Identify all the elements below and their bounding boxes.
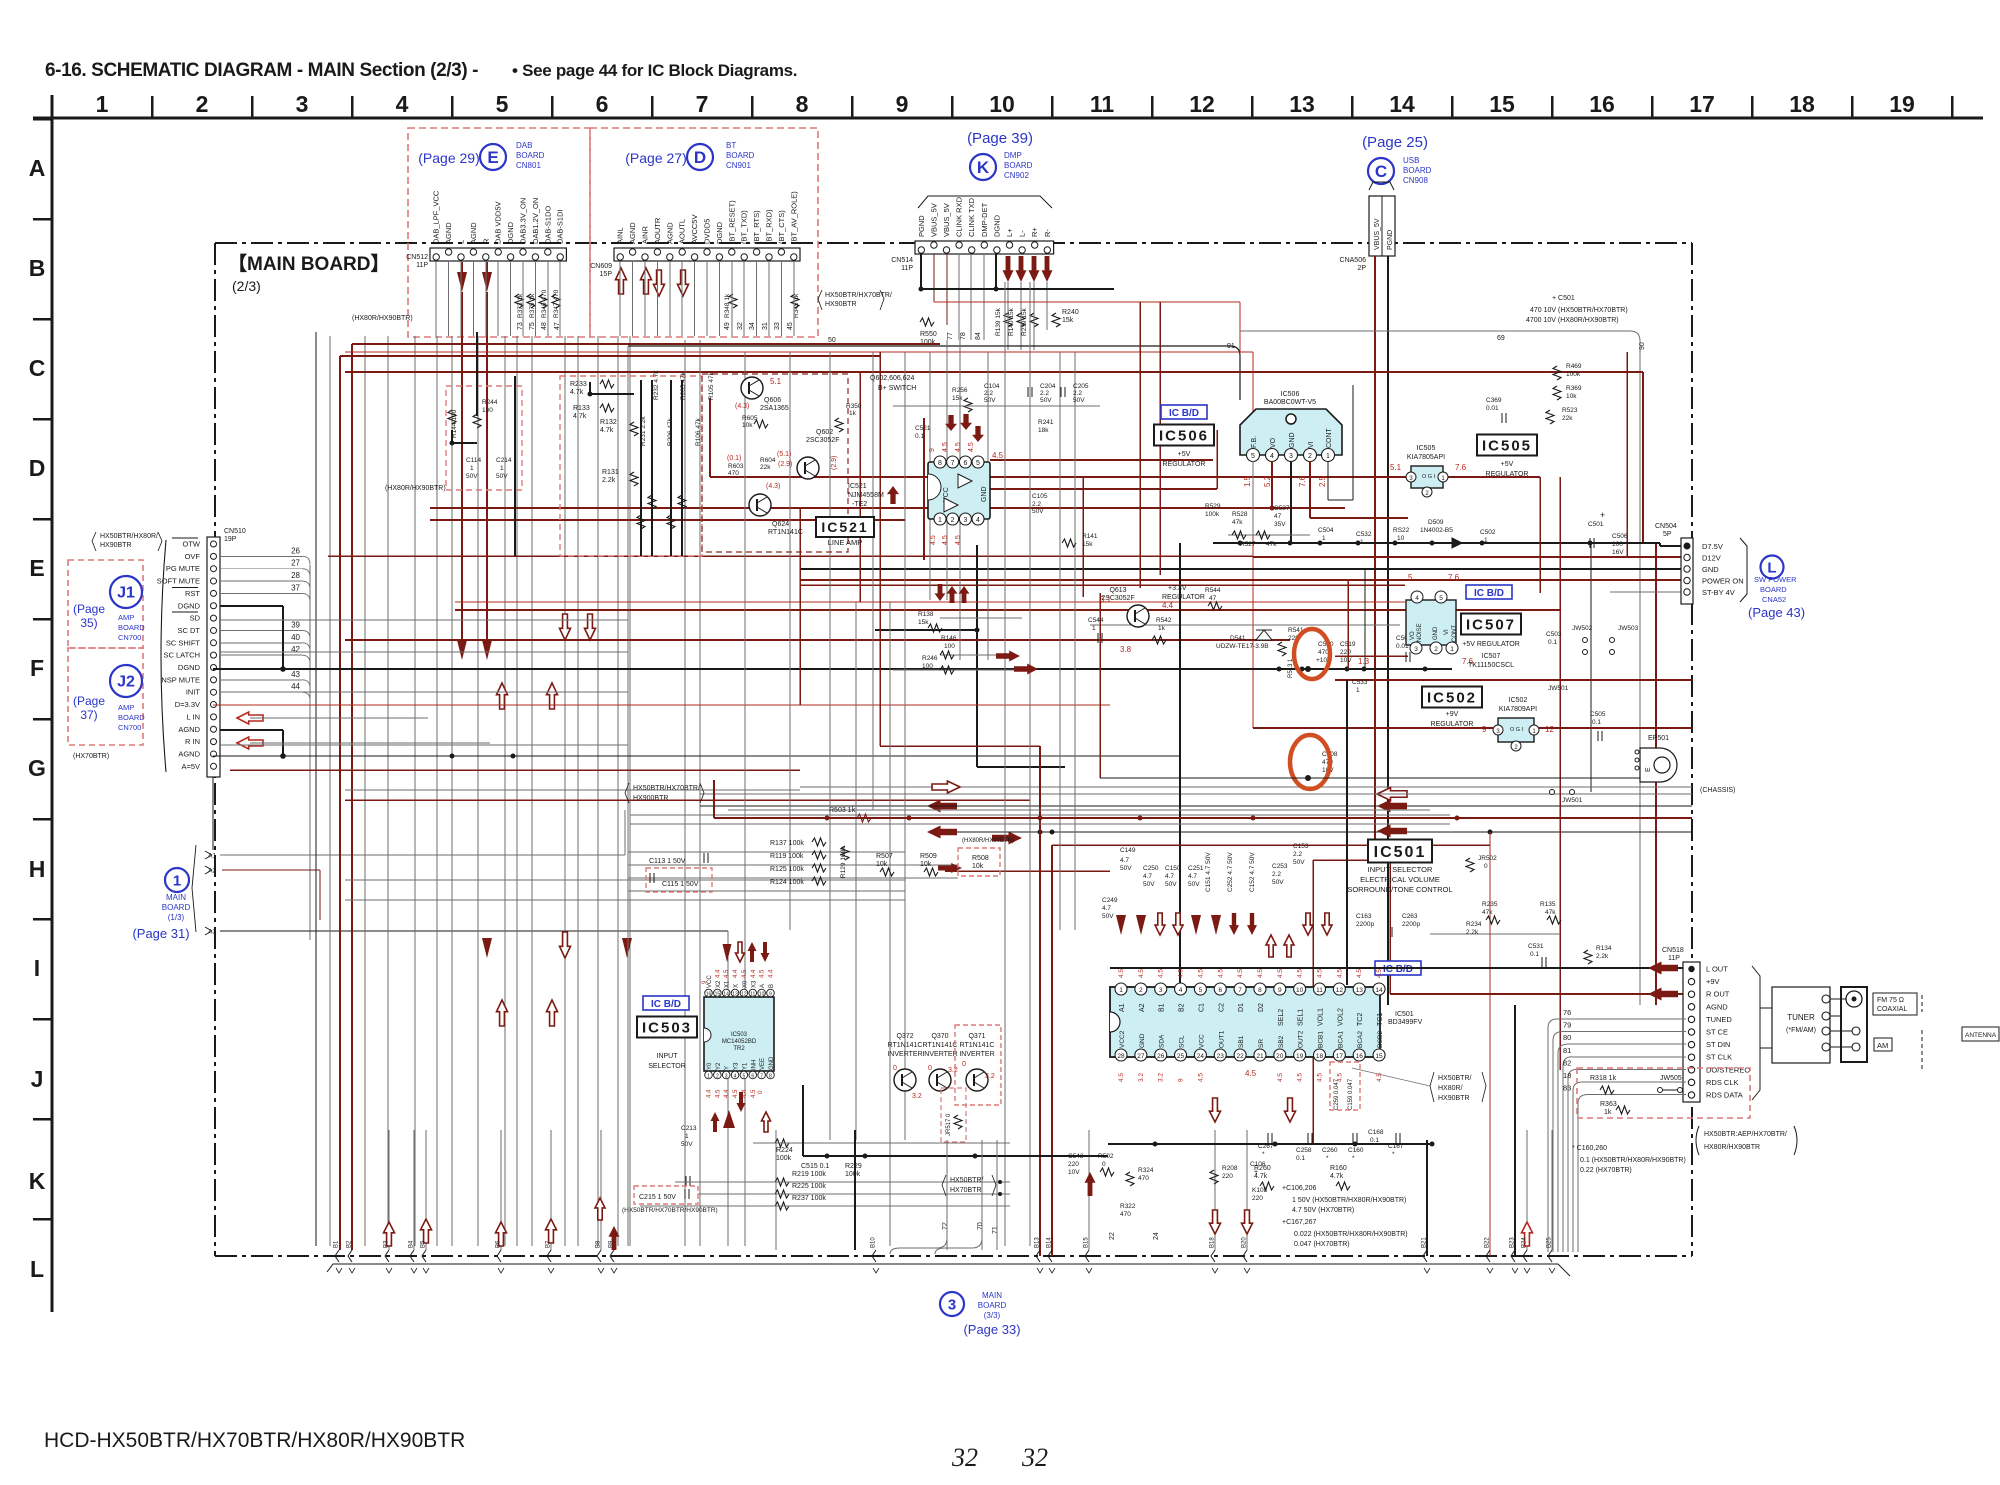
svg-text:DGND: DGND: [178, 601, 201, 610]
svg-text:0: 0: [893, 1065, 897, 1072]
svg-text:10V: 10V: [1068, 1169, 1080, 1176]
svg-text:4.5: 4.5: [1197, 969, 1204, 978]
svg-text:R233: R233: [570, 381, 587, 388]
svg-text:4.7: 4.7: [1165, 873, 1174, 880]
svg-text:VBUS_5V: VBUS_5V: [1374, 218, 1381, 250]
svg-text:50V: 50V: [984, 397, 996, 404]
svg-text:4: 4: [1270, 453, 1274, 460]
svg-text:INIT: INIT: [186, 688, 201, 697]
svg-text:69: 69: [1497, 335, 1505, 342]
svg-text:9: 9: [896, 91, 909, 117]
svg-text:A3: A3: [208, 929, 216, 936]
svg-text:R347 470: R347 470: [553, 289, 560, 318]
svg-text:4.5: 4.5: [1245, 1069, 1257, 1078]
svg-text:4: 4: [1179, 987, 1183, 994]
svg-text:(Page 29): (Page 29): [418, 150, 479, 166]
svg-text:BOARD: BOARD: [162, 903, 191, 912]
svg-text:16: 16: [1356, 1053, 1364, 1060]
svg-text:3.1: 3.1: [1100, 595, 1112, 604]
svg-text:470 10V (HX50BTR/HX70BTR): 470 10V (HX50BTR/HX70BTR): [1530, 307, 1628, 314]
svg-text:4.7k: 4.7k: [1330, 1173, 1344, 1180]
svg-text:C505: C505: [1590, 711, 1606, 718]
svg-text:6: 6: [751, 1074, 754, 1080]
svg-text:RT1N141C: RT1N141C: [960, 1042, 995, 1049]
svg-text:BCA2: BCA2: [1357, 1031, 1364, 1048]
svg-text:4: 4: [976, 517, 980, 524]
svg-text:CNA52: CNA52: [1762, 595, 1786, 604]
svg-text:0: 0: [1484, 863, 1488, 870]
svg-text:50V: 50V: [466, 473, 478, 480]
svg-text:0.1 (HX50BTR/HX80R/HX90BTR): 0.1 (HX50BTR/HX80R/HX90BTR): [1580, 1157, 1686, 1164]
svg-text:0: 0: [962, 1061, 966, 1068]
svg-text:HX50BTR/HX70BTR/: HX50BTR/HX70BTR/: [825, 292, 892, 299]
svg-text:50V: 50V: [1188, 881, 1200, 888]
svg-text:IC506: IC506: [1281, 391, 1300, 398]
svg-text:37: 37: [291, 583, 300, 592]
svg-text:B13: B13: [1035, 1237, 1041, 1248]
svg-text:3.2: 3.2: [948, 1067, 958, 1074]
svg-text:+9V: +9V: [1446, 711, 1459, 718]
svg-text:BCB2: BCB2: [1377, 1031, 1384, 1048]
svg-text:(1/3): (1/3): [168, 913, 185, 922]
svg-text:SB1: SB1: [1238, 1035, 1245, 1048]
svg-text:USB: USB: [1403, 156, 1419, 165]
svg-text:R363: R363: [1600, 1101, 1617, 1108]
svg-text:4.5: 4.5: [1317, 1073, 1324, 1082]
svg-text:BOARD: BOARD: [118, 623, 145, 632]
svg-text:9: 9: [769, 992, 772, 998]
svg-text:9: 9: [1278, 987, 1282, 994]
svg-text:C531: C531: [1528, 943, 1544, 950]
svg-text:C533: C533: [1352, 679, 1368, 686]
svg-text:H: H: [29, 856, 46, 882]
svg-text:B5: B5: [421, 1240, 427, 1248]
svg-text:7: 7: [1238, 987, 1242, 994]
svg-text:4.7: 4.7: [1188, 873, 1197, 880]
svg-text:C213: C213: [681, 1125, 697, 1132]
svg-text:4.4: 4.4: [751, 969, 757, 978]
svg-text:4.7k: 4.7k: [570, 389, 584, 396]
svg-text:10: 10: [1296, 987, 1304, 994]
svg-text:C159 0.047: C159 0.047: [1348, 1078, 1354, 1110]
svg-text:DGND: DGND: [715, 221, 724, 244]
svg-text:15P: 15P: [600, 271, 613, 278]
svg-text:4.5: 4.5: [1297, 1073, 1304, 1082]
svg-text:4.5: 4.5: [1336, 969, 1343, 978]
svg-text:R137 100k: R137 100k: [770, 840, 804, 847]
svg-text:BCA1: BCA1: [1337, 1031, 1344, 1048]
svg-text:IC505: IC505: [1417, 445, 1436, 452]
svg-text:4.5: 4.5: [1277, 969, 1284, 978]
svg-text:4: 4: [1415, 595, 1419, 602]
svg-text:15k: 15k: [1062, 317, 1074, 324]
svg-text:BD3499FV: BD3499FV: [1388, 1019, 1423, 1026]
svg-text:BOARD: BOARD: [118, 713, 145, 722]
svg-text:AVCC5V: AVCC5V: [690, 215, 699, 244]
svg-text:81: 81: [1563, 1046, 1571, 1055]
svg-text:35V: 35V: [1274, 521, 1286, 528]
svg-text:SR: SR: [1258, 1039, 1265, 1048]
svg-text:C369: C369: [1486, 397, 1502, 404]
svg-text:IC B/D: IC B/D: [1383, 964, 1413, 975]
svg-text:4.7 50V (HX70BTR): 4.7 50V (HX70BTR): [1292, 1207, 1354, 1214]
svg-text:+: +: [1254, 1169, 1258, 1176]
svg-text:14: 14: [1375, 987, 1383, 994]
svg-text:(BT_RTS): (BT_RTS): [752, 210, 761, 244]
svg-text:Y3: Y3: [734, 1062, 740, 1070]
svg-text:CLINK TXD: CLINK TXD: [967, 197, 976, 237]
svg-text:I: I: [34, 955, 40, 981]
svg-text:(5.1): (5.1): [777, 451, 791, 458]
svg-text:INH: INH: [751, 1060, 757, 1070]
svg-text:22k: 22k: [1562, 415, 1573, 422]
svg-text:C113 1 50V: C113 1 50V: [649, 858, 686, 865]
svg-text:JW505: JW505: [1660, 1075, 1682, 1082]
svg-text:0.1: 0.1: [1296, 1155, 1305, 1162]
svg-text:49: 49: [724, 322, 731, 330]
svg-text:4.5: 4.5: [1118, 1073, 1125, 1082]
svg-text:IC501: IC501: [1395, 1011, 1414, 1018]
svg-text:R529: R529: [1205, 503, 1221, 510]
svg-text:IC503: IC503: [642, 1019, 692, 1036]
svg-text:5: 5: [1408, 573, 1413, 582]
svg-text:R324: R324: [1138, 1167, 1154, 1174]
svg-text:GND: GND: [1433, 626, 1439, 640]
svg-text:100: 100: [482, 407, 493, 414]
svg-text:HCD-HX50BTR/HX70BTR/HX80R/HX90: HCD-HX50BTR/HX70BTR/HX80R/HX90BTR: [44, 1429, 465, 1452]
svg-text:91: 91: [1227, 343, 1235, 350]
svg-text:1: 1: [1356, 687, 1360, 694]
svg-text:3: 3: [296, 91, 309, 117]
svg-text:2.2: 2.2: [1032, 501, 1041, 508]
svg-text:IC521: IC521: [848, 483, 867, 490]
svg-text:26: 26: [1157, 1053, 1165, 1060]
svg-text:BOARD: BOARD: [1403, 166, 1432, 175]
svg-text:HX70BTR: HX70BTR: [950, 1187, 982, 1194]
svg-text:MC14052BD: MC14052BD: [722, 1039, 757, 1045]
svg-text:19: 19: [1889, 91, 1915, 117]
svg-text:4.4: 4.4: [715, 969, 721, 978]
svg-text:4: 4: [396, 91, 409, 117]
svg-text:71: 71: [992, 1226, 999, 1234]
svg-text:48: 48: [541, 322, 548, 330]
svg-text:3: 3: [1159, 987, 1163, 994]
svg-text:10: 10: [1397, 535, 1405, 542]
svg-text:5P: 5P: [1663, 531, 1672, 538]
svg-text:ANTENNA: ANTENNA: [1965, 1032, 1997, 1039]
svg-text:B18: B18: [1210, 1237, 1216, 1248]
svg-text:HX900BTR: HX900BTR: [633, 795, 668, 802]
svg-text:CONT: CONT: [1326, 427, 1333, 448]
svg-text:470: 470: [728, 470, 739, 477]
svg-text:CN518: CN518: [1662, 947, 1684, 954]
svg-text:GND: GND: [1702, 565, 1719, 574]
svg-text:C502: C502: [1480, 529, 1496, 536]
svg-text:26: 26: [291, 546, 300, 555]
svg-text:C532: C532: [1356, 531, 1372, 538]
svg-text:2: 2: [1308, 453, 1312, 460]
svg-text:10k: 10k: [972, 863, 984, 870]
svg-text:R509: R509: [920, 853, 937, 860]
svg-text:4.5: 4.5: [942, 535, 949, 545]
svg-text:R133: R133: [573, 405, 590, 412]
svg-text:TUNED: TUNED: [1706, 1015, 1732, 1024]
svg-text:100k: 100k: [776, 1155, 792, 1162]
svg-text:C537: C537: [1274, 505, 1290, 512]
svg-text:TK11150CSCL: TK11150CSCL: [1468, 662, 1514, 669]
svg-text:470: 470: [1138, 1175, 1149, 1182]
svg-text:L: L: [30, 1256, 44, 1282]
svg-text:2SA1365: 2SA1365: [760, 405, 789, 412]
svg-text:AM: AM: [1877, 1041, 1888, 1050]
svg-text:VO: VO: [1410, 631, 1416, 640]
svg-text:SW POWER: SW POWER: [1754, 575, 1797, 584]
svg-text:2200p: 2200p: [1356, 921, 1374, 928]
svg-text:C: C: [1375, 162, 1387, 181]
svg-text:E: E: [1645, 767, 1652, 772]
svg-text:CN908: CN908: [1403, 176, 1428, 185]
svg-text:B4: B4: [409, 1240, 415, 1248]
svg-text:28: 28: [1117, 1053, 1125, 1060]
svg-text:3.2: 3.2: [912, 1093, 922, 1100]
svg-text:50V: 50V: [1293, 859, 1305, 866]
svg-text:R205 47k: R205 47k: [680, 371, 687, 400]
svg-text:77: 77: [947, 332, 954, 340]
svg-text:43: 43: [291, 670, 300, 679]
svg-text:HX90BTR: HX90BTR: [825, 301, 857, 308]
svg-text:+C106,206: +C106,206: [1282, 1185, 1317, 1192]
svg-text:K108: K108: [1252, 1187, 1268, 1194]
svg-text:OTW: OTW: [183, 540, 201, 549]
svg-text:42: 42: [291, 645, 300, 654]
svg-text:5.1: 5.1: [1390, 463, 1402, 472]
svg-text:MAIN: MAIN: [166, 893, 186, 902]
svg-text:K: K: [29, 1168, 46, 1194]
svg-text:220: 220: [1252, 1195, 1263, 1202]
svg-text:100: 100: [944, 643, 955, 650]
svg-text:1: 1: [500, 465, 504, 472]
svg-text:A2: A2: [1139, 1003, 1146, 1012]
svg-text:AINR: AINR: [641, 225, 650, 244]
svg-text:INVERTER: INVERTER: [887, 1051, 922, 1058]
svg-text:3: 3: [1414, 646, 1418, 653]
svg-text:AGND: AGND: [665, 222, 674, 244]
svg-text:44: 44: [291, 682, 300, 691]
svg-text:DGND: DGND: [178, 663, 201, 672]
svg-text:14: 14: [1389, 91, 1415, 117]
svg-text:15: 15: [1489, 91, 1515, 117]
svg-text:C503: C503: [1546, 631, 1562, 638]
svg-text:4.7: 4.7: [1102, 905, 1111, 912]
svg-text:JW501: JW501: [1562, 797, 1583, 804]
svg-text:4.5: 4.5: [1376, 969, 1383, 978]
svg-text:C252 4.7 50V: C252 4.7 50V: [1227, 852, 1234, 892]
svg-text:AGND: AGND: [1706, 1002, 1728, 1011]
svg-text:100k: 100k: [920, 339, 936, 346]
svg-text:C259 0.047: C259 0.047: [1334, 1078, 1340, 1110]
svg-text:C150: C150: [1165, 865, 1181, 872]
svg-text:IC505: IC505: [1482, 437, 1532, 454]
svg-text:X0: X0: [742, 980, 748, 988]
svg-text:4.5: 4.5: [1138, 969, 1145, 978]
svg-text:470: 470: [1120, 1211, 1131, 1218]
svg-text:80: 80: [1563, 1033, 1571, 1042]
svg-text:20: 20: [1276, 1053, 1284, 1060]
svg-text:12: 12: [1336, 987, 1344, 994]
svg-text:100: 100: [1612, 541, 1623, 548]
svg-text:4.5: 4.5: [715, 1089, 721, 1098]
svg-text:E: E: [487, 148, 498, 167]
svg-text:C151 4.7 50V: C151 4.7 50V: [1205, 852, 1212, 892]
svg-text:14: 14: [723, 992, 729, 998]
svg-text:O G I: O G I: [1422, 474, 1436, 480]
svg-text:+5V: +5V: [1501, 461, 1514, 468]
svg-text:B1: B1: [1159, 1003, 1166, 1012]
svg-text:4.5: 4.5: [1297, 969, 1304, 978]
svg-text:CN700: CN700: [118, 723, 141, 732]
svg-text:* C160,260: * C160,260: [1572, 1145, 1607, 1152]
svg-text:1: 1: [1450, 646, 1454, 653]
svg-text:4.7k: 4.7k: [573, 413, 587, 420]
svg-text:11P: 11P: [1668, 955, 1680, 962]
svg-text:SD: SD: [190, 614, 201, 623]
svg-text:JR502: JR502: [1478, 855, 1497, 862]
svg-text:4.5: 4.5: [1217, 969, 1224, 978]
svg-text:(HX80R/HX90BTR): (HX80R/HX90BTR): [385, 485, 446, 492]
svg-text:R550: R550: [920, 331, 937, 338]
svg-text:D541: D541: [1230, 635, 1246, 642]
svg-text:4.4: 4.4: [724, 1089, 730, 1098]
svg-text:DO/STEREO: DO/STEREO: [1706, 1065, 1750, 1074]
svg-text:Y0: Y0: [707, 1062, 713, 1070]
svg-text:AMP: AMP: [118, 613, 134, 622]
svg-text:BCB1: BCB1: [1318, 1031, 1325, 1048]
svg-text:SC DT: SC DT: [178, 626, 201, 635]
svg-text:50V: 50V: [1073, 397, 1085, 404]
svg-text:R131: R131: [602, 469, 619, 476]
svg-text:HX50BTR:AEP/HX70BTR/: HX50BTR:AEP/HX70BTR/: [1704, 1131, 1787, 1138]
svg-text:PGND: PGND: [1387, 230, 1394, 250]
svg-text:TC2: TC2: [1357, 1013, 1364, 1026]
svg-text:45: 45: [787, 322, 794, 330]
svg-text:R603: R603: [728, 463, 744, 470]
svg-text:JW502: JW502: [1572, 625, 1593, 632]
svg-text:1k: 1k: [849, 410, 857, 417]
svg-text:L OUT: L OUT: [1706, 965, 1728, 974]
svg-text:HX80R/: HX80R/: [1438, 1085, 1463, 1092]
svg-text:Q602,606,624: Q602,606,624: [870, 375, 914, 382]
svg-text:J1: J1: [117, 585, 135, 602]
svg-text:CN902: CN902: [1004, 171, 1029, 180]
svg-text:(Page: (Page: [73, 694, 105, 708]
svg-text:Q372: Q372: [896, 1033, 913, 1040]
svg-text:R135: R135: [1540, 901, 1556, 908]
svg-text:1: 1: [1484, 537, 1488, 544]
svg-text:10: 10: [759, 992, 765, 998]
svg-text:3: 3: [725, 1074, 728, 1080]
svg-text:4.5: 4.5: [955, 442, 962, 452]
svg-text:C106: C106: [1250, 1161, 1266, 1168]
svg-text:R134: R134: [1596, 945, 1612, 952]
svg-text:2SC3052F: 2SC3052F: [806, 437, 839, 444]
svg-text:R244: R244: [482, 399, 498, 406]
svg-text:D: D: [29, 455, 46, 481]
svg-text:1: 1: [173, 872, 181, 889]
svg-text:13: 13: [732, 992, 738, 998]
svg-text:SDA: SDA: [1159, 1034, 1166, 1048]
svg-text:15k: 15k: [918, 619, 929, 626]
svg-text:TR2: TR2: [733, 1046, 745, 1052]
svg-text:27: 27: [1137, 1053, 1145, 1060]
svg-text:Q602: Q602: [816, 429, 833, 436]
svg-text:1: 1: [1322, 535, 1326, 542]
svg-text:2.2k: 2.2k: [1596, 953, 1609, 960]
svg-text:12: 12: [1189, 91, 1215, 117]
svg-text:16: 16: [706, 992, 712, 998]
svg-text:NOISE: NOISE: [1417, 623, 1423, 642]
svg-text:VBUS_5V: VBUS_5V: [942, 203, 951, 237]
svg-text:L: L: [457, 240, 466, 244]
svg-text:RT1N141C: RT1N141C: [888, 1042, 923, 1049]
svg-text:2.2: 2.2: [984, 390, 993, 397]
svg-text:Q606: Q606: [764, 397, 781, 404]
svg-text:B: B: [769, 984, 775, 988]
svg-text:37): 37): [80, 708, 97, 722]
svg-text:4.4: 4.4: [707, 1089, 713, 1098]
svg-text:X2: X2: [716, 980, 722, 988]
svg-text:50V: 50V: [1165, 881, 1177, 888]
svg-text:C251: C251: [1188, 865, 1204, 872]
svg-text:5: 5: [496, 91, 509, 117]
svg-text:4.5: 4.5: [760, 969, 766, 978]
svg-text:D2: D2: [1258, 1003, 1265, 1012]
svg-text:CN512: CN512: [406, 254, 428, 261]
svg-text:31: 31: [762, 322, 769, 330]
svg-text:8: 8: [1258, 987, 1262, 994]
svg-text:(Page 39): (Page 39): [967, 130, 1033, 147]
svg-text:R132: R132: [600, 419, 617, 426]
svg-text:18k: 18k: [1038, 427, 1049, 434]
svg-text:1: 1: [1326, 453, 1330, 460]
svg-text:AGND: AGND: [444, 222, 453, 244]
svg-text:A2: A2: [208, 868, 216, 875]
svg-text:16V: 16V: [1612, 549, 1624, 556]
svg-text:R322: R322: [1120, 1203, 1136, 1210]
svg-text:24: 24: [1153, 1232, 1160, 1240]
svg-text:Q370: Q370: [931, 1033, 948, 1040]
svg-text:DMP-DET: DMP-DET: [980, 202, 989, 237]
svg-text:2200p: 2200p: [1402, 921, 1420, 928]
svg-text:50V: 50V: [1272, 879, 1284, 886]
svg-text:DGND: DGND: [992, 214, 1001, 237]
svg-text:SCL: SCL: [1179, 1035, 1186, 1048]
svg-text:(*FM/AM): (*FM/AM): [1786, 1027, 1816, 1034]
svg-text:3.8: 3.8: [1120, 645, 1132, 654]
svg-text:R544: R544: [1205, 587, 1221, 594]
svg-text:1k: 1k: [1158, 625, 1166, 632]
svg-text:7.6: 7.6: [1455, 463, 1467, 472]
svg-text:R105 47k: R105 47k: [708, 371, 715, 400]
svg-text:BOARD: BOARD: [978, 1301, 1007, 1310]
svg-text:C543: C543: [1068, 1153, 1084, 1160]
svg-text:A1: A1: [208, 853, 216, 860]
svg-text:(BT_RESET): (BT_RESET): [727, 200, 736, 244]
svg-text:4.7k: 4.7k: [600, 427, 614, 434]
svg-text:C253: C253: [1272, 863, 1288, 870]
svg-text:R106 47k: R106 47k: [695, 417, 702, 446]
svg-text:R232 4.7k: R232 4.7k: [653, 370, 660, 400]
svg-text:1.3: 1.3: [1358, 657, 1370, 666]
